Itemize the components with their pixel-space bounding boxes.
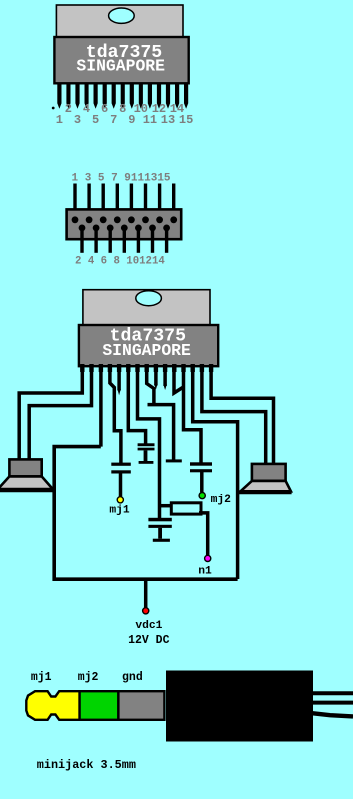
svg-text:9: 9 bbox=[128, 113, 135, 127]
minijack cable wire 3 bbox=[312, 713, 353, 716]
ground box outline bbox=[54, 447, 237, 580]
speaker SP1 left: magnet bbox=[9, 459, 41, 476]
connector J1 bottom pin wires bbox=[82, 228, 167, 253]
svg-text:mj1: mj1 bbox=[31, 671, 52, 684]
svg-text:6: 6 bbox=[101, 102, 108, 116]
node n1 bbox=[205, 555, 211, 561]
IC U1 pins 1-15 bbox=[57, 83, 188, 109]
minijack tip mj1 yellow bbox=[26, 691, 79, 720]
wire pin1 to left speaker bbox=[19, 364, 82, 461]
svg-text:minijack 3.5mm: minijack 3.5mm bbox=[37, 758, 136, 772]
connector J1 body bbox=[67, 209, 182, 239]
resistor R1 bbox=[171, 503, 201, 514]
node vdc1 bbox=[143, 608, 149, 614]
wire pin15 to right speaker bbox=[211, 364, 273, 465]
svg-text:7: 7 bbox=[110, 113, 117, 127]
IC U2 pin stubs bbox=[80, 364, 213, 372]
speaker SP1 left: cone bbox=[0, 476, 53, 489]
svg-text:mj1: mj1 bbox=[109, 505, 130, 517]
svg-text:mj2: mj2 bbox=[211, 494, 232, 506]
IC U1 body bbox=[54, 37, 188, 83]
capacitor C1 plates bbox=[111, 463, 131, 466]
wire pin12 to capacitor C4 mj2 bbox=[184, 364, 202, 463]
connector J1 top row contacts bbox=[72, 216, 178, 223]
speaker SP2 right: rim bbox=[239, 490, 292, 494]
wire junction to resistor R1 bbox=[159, 504, 171, 508]
wire resistor R1 to node n1 bbox=[199, 513, 208, 555]
minijack body bbox=[166, 671, 313, 742]
svg-text:mj2: mj2 bbox=[78, 671, 99, 684]
svg-text:gnd: gnd bbox=[122, 671, 143, 684]
svg-text:11: 11 bbox=[143, 113, 157, 127]
connector J1 top pin wires bbox=[75, 184, 174, 221]
wire pin11 jog to pin12 net bbox=[174, 364, 183, 393]
svg-text:SINGAPORE: SINGAPORE bbox=[76, 57, 165, 76]
wire pin8 stub bbox=[147, 364, 154, 403]
capacitor C3 plate bbox=[166, 459, 182, 462]
wire pin3 to box top bbox=[99, 364, 103, 447]
wire pin9 stub bbox=[154, 364, 158, 386]
IC U1 odd pin numbers bbox=[56, 113, 194, 127]
pin9 taper tip bbox=[154, 384, 157, 390]
IC U1 even pin numbers bbox=[65, 102, 184, 116]
wire pin6 to capacitor C2 bbox=[128, 364, 145, 444]
svg-text:n1: n1 bbox=[198, 566, 212, 578]
svg-text:4: 4 bbox=[83, 102, 90, 116]
wire pin10 stub bbox=[163, 364, 167, 386]
svg-text:1 3 5 7 9111315: 1 3 5 7 9111315 bbox=[72, 173, 171, 185]
IC U1 mounting hole bbox=[109, 8, 135, 23]
IC U2 tda7375 schematic: tab bbox=[83, 290, 210, 326]
connector J1 bottom row contacts bbox=[79, 225, 170, 232]
svg-text:3: 3 bbox=[74, 113, 81, 127]
pin5 taper tip bbox=[117, 389, 120, 395]
capacitor C4 plates bbox=[190, 462, 212, 465]
pin 1 index dot bbox=[52, 107, 55, 110]
wire pin2 to left speaker bbox=[29, 364, 91, 461]
svg-text:5: 5 bbox=[92, 113, 99, 127]
speaker SP1 left: rim bbox=[0, 488, 53, 492]
wire C4 to node mj2 bbox=[200, 472, 204, 492]
minijack ring mj2 green bbox=[80, 691, 119, 720]
wire pin7 to capacitor C5 and resistor R1 bbox=[138, 364, 160, 519]
svg-text:15: 15 bbox=[179, 113, 193, 127]
wire box to node vdc1 bbox=[144, 579, 148, 608]
svg-text:vdc1: vdc1 bbox=[135, 620, 162, 632]
IC U1 tda7375 package top view: tab bbox=[56, 5, 183, 38]
minijack cable wire 1 bbox=[312, 691, 353, 695]
capacitor C5 plates bbox=[148, 518, 171, 522]
svg-text:SINGAPORE: SINGAPORE bbox=[102, 341, 191, 360]
speaker SP2 right: cone bbox=[241, 481, 291, 491]
svg-text:1: 1 bbox=[56, 113, 63, 127]
capacitor C2 plates bbox=[138, 443, 155, 446]
IC U2 body bbox=[79, 325, 218, 366]
wire pin13 to box right edge bbox=[193, 364, 238, 579]
svg-text:2: 2 bbox=[65, 102, 72, 116]
wire pin5 stub bbox=[117, 364, 121, 391]
node mj1 bbox=[117, 497, 123, 503]
wire pin8 to capacitor C3 bbox=[148, 405, 174, 461]
svg-text:8: 8 bbox=[119, 102, 126, 116]
svg-text:13: 13 bbox=[161, 113, 175, 127]
IC U2 mounting hole bbox=[136, 291, 162, 306]
minijack cable wire 2 bbox=[312, 701, 353, 705]
wire pin4 to capacitor C1 bbox=[110, 364, 121, 463]
svg-text:2 4 6 8 101214: 2 4 6 8 101214 bbox=[75, 256, 165, 268]
pin10 taper tip bbox=[163, 385, 166, 391]
wire pin14 to right speaker bbox=[202, 364, 266, 465]
wire C1 to node mj1 bbox=[119, 474, 123, 497]
node mj2 bbox=[199, 493, 205, 499]
minijack sleeve gnd gray bbox=[118, 691, 164, 720]
speaker SP2 right: magnet bbox=[252, 464, 286, 481]
svg-text:12V DC: 12V DC bbox=[128, 634, 170, 647]
